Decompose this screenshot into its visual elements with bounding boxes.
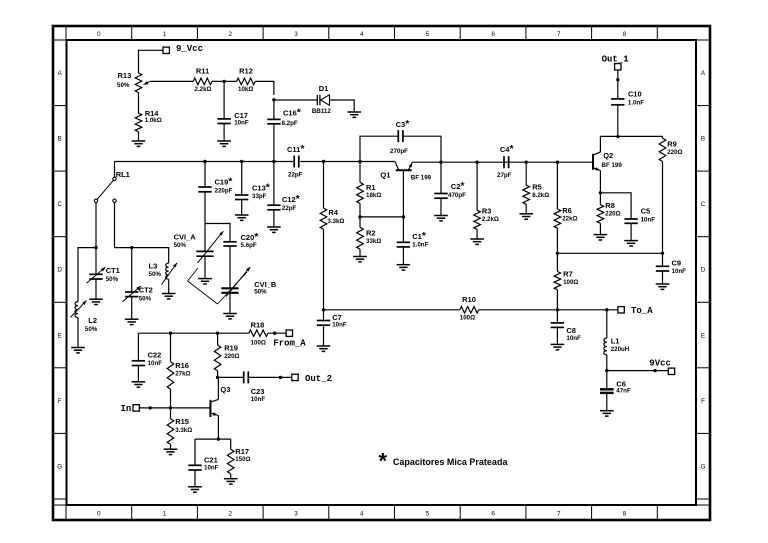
wire RL1 to CT2 L3 [115,248,169,264]
resistor R6 [554,206,577,228]
terminal 9_Vcc [163,44,203,54]
wire node to 9Vcc [607,370,669,372]
svg-text:100Ω: 100Ω [563,279,578,286]
svg-text:C22: C22 [148,350,162,359]
resistor R10 [460,295,479,321]
ground R14 [132,140,146,142]
svg-text:C23: C23 [251,387,265,396]
svg-text:A: A [58,70,63,77]
node bus C3-R1 [358,160,361,163]
wire node to R7 [556,253,558,271]
wire R6 down [556,228,558,253]
svg-text:R13: R13 [118,71,132,80]
capacitor C23 [244,371,266,402]
svg-text:Q2: Q2 [603,151,613,160]
node 9Vcc stem [654,369,657,372]
wire node to C7 [323,310,325,321]
wire R4 down to C7 node [323,229,325,310]
wire emitter to R8 [599,193,601,205]
wire L1 down [606,355,608,371]
wire D1 to ground [330,100,355,112]
capacitor C5 [624,207,655,224]
svg-text:C8: C8 [566,326,576,335]
svg-text:10nF: 10nF [234,119,249,126]
wire node to R5 [525,162,527,185]
svg-text:6: 6 [491,510,495,517]
svg-text:1: 1 [163,31,167,38]
svg-text:9Vcc: 9Vcc [649,358,671,368]
node Out_2 stem [279,376,282,379]
svg-text:R10: R10 [462,295,476,304]
wire Q1 base down [402,170,404,217]
resistor R7 [554,269,578,289]
capacitor C20 [223,231,259,249]
svg-text:1: 1 [163,510,167,517]
potentiometer R13 [117,71,150,93]
svg-text:5: 5 [426,510,430,517]
ground C22 [132,381,146,383]
node R19 [216,332,219,335]
wire R1 to node [359,203,361,217]
svg-text:2.2kΩ: 2.2kΩ [482,216,499,223]
ground CT2 [125,318,139,320]
resistor R3 [474,206,499,229]
wire 9_Vcc to R13 [139,50,164,73]
wire bus to C19 [204,162,206,188]
ground C2 [434,215,448,217]
svg-text:10nF: 10nF [332,322,347,329]
svg-text:R12: R12 [239,67,253,76]
wire C13 to ground [241,200,243,216]
wire L3 to ground [168,279,170,293]
ground C1 [397,264,411,266]
svg-text:27kΩ: 27kΩ [175,370,190,377]
svg-text:R9: R9 [667,139,677,148]
svg-text:C: C [701,201,706,208]
wire node to CT2 [131,248,133,292]
wire C8 to ground [556,327,558,344]
node base-C1 [402,215,405,218]
wire R8 to ground [599,223,601,234]
wire R12 to C16 node [255,81,274,95]
svg-text:22pF: 22pF [282,205,297,212]
node bus C13 [240,160,243,163]
wire C6 to ground [606,393,608,411]
wire C7 to ground [323,325,325,346]
ground L2 [71,347,85,349]
svg-text:50%: 50% [149,271,162,278]
svg-text:Q3: Q3 [220,385,230,394]
node R4-C7 [322,308,325,311]
svg-text:C7: C7 [332,313,342,322]
capacitor C17 [217,111,248,127]
svg-text:10nF: 10nF [204,464,219,471]
svg-text:50%: 50% [254,289,267,296]
svg-text:47nF: 47nF [616,387,631,394]
ground R5 [519,213,533,215]
svg-text:G: G [57,463,62,470]
svg-text:R7: R7 [563,269,573,278]
wire R13 to R14 [138,93,140,114]
wire C5 to ground [630,223,632,240]
svg-text:3: 3 [294,31,298,38]
svg-text:3.3kΩ: 3.3kΩ [175,427,192,434]
svg-text:100Ω: 100Ω [251,340,266,347]
ground CVI_A [198,278,212,280]
ground R8 [594,234,608,236]
wire C2 to ground [440,198,442,215]
wire to R9 [662,136,664,138]
wire Q3 emitter down [217,415,219,439]
svg-text:2: 2 [228,510,232,517]
gang linkage CVI [188,268,247,304]
wire node to D1 [274,99,317,101]
node CT2 [130,246,133,249]
svg-text:470pF: 470pF [448,192,466,199]
ground R2 [353,256,367,258]
svg-text:R6: R6 [562,206,572,215]
svg-text:220Ω: 220Ω [667,149,682,156]
svg-text:B: B [701,136,705,143]
wire C21 to ground [194,470,196,487]
svg-text:10nF: 10nF [566,335,581,342]
svg-text:C1*: C1* [412,230,427,242]
trimmer capacitor CT2 [123,285,153,302]
wire R11 to R12 [212,80,237,82]
node R16-R15 [169,406,172,409]
variable capacitor CVI_A [174,231,224,263]
svg-text:CVI_A: CVI_A [174,233,197,242]
svg-text:150Ω: 150Ω [235,456,250,463]
svg-text:50%: 50% [174,242,187,249]
resistor R15 [167,417,192,445]
svg-text:220Ω: 220Ω [605,210,620,217]
svg-text:RL1: RL1 [116,170,130,179]
wire From_A bus [138,332,286,334]
node bus R4 [322,160,325,163]
node R7-C8 [556,308,559,311]
variable inductor L3 [149,261,178,284]
wire R2 to ground [359,249,361,256]
svg-text:50%: 50% [106,276,119,283]
svg-text:R4: R4 [328,208,338,217]
svg-text:10nF: 10nF [251,396,266,403]
node R9-C9 [661,252,664,255]
node In stem [149,406,152,409]
svg-text:C13*: C13* [252,182,271,194]
wire C17 to ground [223,124,225,142]
svg-text:3: 3 [294,510,298,517]
wire node to R6 [556,162,558,209]
svg-text:4: 4 [360,31,364,38]
node C10 [616,135,619,138]
capacitor C19 [198,176,233,195]
svg-text:0: 0 [97,31,101,38]
wire Q2 emitter down [599,170,601,193]
svg-text:22pF: 22pF [288,172,303,179]
resistor R16 [167,361,190,389]
frame row letters [57,70,706,470]
node Out_1 stem [616,78,619,81]
wire R3 to ground [476,229,478,239]
svg-text:R1: R1 [366,183,376,192]
node R6-R7 [556,252,559,255]
wire node to C2 [440,162,442,193]
svg-text:8: 8 [623,510,627,517]
svg-text:C4*: C4* [500,143,515,155]
svg-text:C11*: C11* [287,143,305,155]
svg-text:C: C [57,201,62,208]
node R6 [556,161,559,164]
svg-text:L3: L3 [149,261,158,270]
capacitor C21 [188,455,218,471]
wire R19 down [217,371,219,378]
wire C10 up [617,105,619,137]
resistor R18 [249,320,268,346]
wire node to R16 [170,333,172,361]
wire node to C9 [662,253,664,266]
svg-text:Capacitores Mica Prateada: Capacitores Mica Prateada [393,457,509,467]
wire bus to C12 [273,162,275,206]
wire CVI_B to ground [229,293,231,314]
svg-text:C16*: C16* [283,107,302,119]
svg-text:33kΩ: 33kΩ [366,238,381,245]
svg-text:B: B [58,136,62,143]
ground D1 [347,111,361,113]
capacitor C6 [600,379,631,394]
svg-text:2.2kΩ: 2.2kΩ [195,86,212,93]
wire R6-R9 node [557,252,662,254]
variable capacitor CVI_B [221,267,276,297]
svg-text:E: E [701,332,705,339]
wire collector to C23 [218,376,244,378]
wire emitter to C5 [600,193,631,219]
ground C12 [267,226,281,228]
svg-text:R5: R5 [532,182,542,191]
capacitor C16 [267,107,302,127]
svg-text:*: * [379,449,388,474]
capacitor C3 top wire [360,136,441,162]
svg-text:CT2: CT2 [139,285,153,294]
svg-text:To_A: To_A [631,306,653,316]
svg-text:F: F [701,398,705,405]
node R11-R12-C17 [222,80,225,83]
wire C19 to CVI_A and C20 [205,192,230,242]
ground L3 [162,293,176,295]
svg-text:3.3kΩ: 3.3kΩ [327,218,344,225]
wire node to C16 [273,100,275,120]
svg-text:Out_1: Out_1 [602,54,630,64]
wire C22 to ground [137,366,139,382]
svg-text:BF 199: BF 199 [602,162,623,169]
node L1-C6-9Vcc [605,369,608,372]
terminal 9Vcc [649,358,674,374]
node bus C16-C12 [272,160,275,163]
resistor R9 [659,138,682,161]
transistor Q3 [210,385,230,417]
wire node to C1 [402,217,404,242]
inductor L1 [604,336,630,355]
svg-text:R16: R16 [175,361,189,370]
wire CVI_A to ground [204,256,206,278]
svg-text:5.6pF: 5.6pF [241,242,257,249]
svg-text:18kΩ: 18kΩ [366,192,381,199]
svg-text:33pF: 33pF [252,193,267,200]
svg-text:50%: 50% [85,326,98,333]
resistor R11 [193,67,212,93]
ground R15 [164,448,178,450]
wire C20 to CVI_B [229,246,231,288]
wire Q2 collector up [599,136,601,152]
node R16 [169,332,172,335]
svg-text:C9: C9 [672,258,682,267]
terminal Out_1 [602,54,630,70]
svg-text:BF 199: BF 199 [411,174,432,181]
svg-text:C2*: C2* [451,180,466,192]
wire node to C17 [223,81,225,119]
svg-text:50%: 50% [139,295,152,302]
ground R17 [224,478,238,480]
svg-text:10nF: 10nF [672,268,687,275]
wire node to CT1 [95,248,97,275]
svg-text:C5: C5 [641,207,651,216]
svg-text:8.2pF: 8.2pF [282,120,298,127]
wire R15 to ground [170,444,172,449]
svg-text:8: 8 [623,31,627,38]
svg-text:4: 4 [360,510,364,517]
svg-text:CT1: CT1 [106,266,120,275]
capacitor C2 [434,180,466,199]
transistor Q2 BF199 [593,151,622,171]
svg-text:C10: C10 [628,89,642,98]
svg-text:5: 5 [426,31,430,38]
svg-text:220uH: 220uH [611,346,630,353]
wire R5 to ground [525,204,527,214]
wire bus to C13 [241,162,243,196]
node To_A-L1 [605,308,608,311]
wire node to R19 [217,333,219,345]
wire main bus left segment [115,161,293,163]
variable inductor L2 [70,301,97,334]
svg-text:27pF: 27pF [497,172,512,179]
svg-text:L1: L1 [611,336,620,345]
wire base node [360,216,403,218]
resistor R17 [227,447,250,474]
svg-text:270pF: 270pF [390,148,408,155]
wire node to L1 [606,310,608,338]
ground R3 [470,238,484,240]
wire Q3 collector up [217,377,219,399]
terminal Out_2 [292,374,332,384]
wire R10 left segment [324,309,460,311]
svg-text:2: 2 [228,31,232,38]
svg-text:E: E [58,332,62,339]
node Q3 collector [216,376,219,379]
resistor R1 [357,182,382,203]
resistor R12 [237,67,256,93]
wire node to L2 [78,248,96,302]
svg-text:R19: R19 [224,343,238,352]
svg-text:R2: R2 [366,228,376,237]
ground CT1 [89,298,103,300]
capacitor C12 [267,193,300,212]
svg-text:7: 7 [557,31,561,38]
wire R7 down [556,290,558,310]
svg-text:R8: R8 [605,201,615,210]
svg-text:BB112: BB112 [312,108,331,115]
wire wiper to R11 [150,80,193,82]
capacitor C11 [287,143,305,179]
svg-text:R3: R3 [482,206,492,215]
svg-text:C19*: C19* [215,176,234,188]
ground C9 [656,283,670,285]
svg-text:50%: 50% [117,82,130,89]
node CT1-L2 [94,246,97,249]
terminal From_A [273,330,306,349]
svg-text:L2: L2 [88,316,97,325]
ground C21 [188,486,202,488]
wire R16 down [170,389,172,407]
wire emitter bus [412,161,593,163]
resistor R2 [357,217,382,249]
svg-text:10nF: 10nF [641,217,656,224]
capacitor C10 [611,89,644,106]
node Q2 emitter [599,191,602,194]
svg-text:6: 6 [491,31,495,38]
capacitor C4 [497,143,514,179]
svg-text:10nF: 10nF [148,360,163,367]
terminal To_A [618,306,653,316]
wire node to C6 [606,371,608,390]
resistor R5 [523,182,549,204]
svg-text:D: D [57,267,62,274]
wire emitter node [195,439,231,465]
svg-text:0: 0 [97,510,101,517]
node D1 branch [272,98,275,101]
node C3-C2 [439,161,442,164]
wire R9 down [662,161,664,253]
svg-text:C21: C21 [204,455,218,464]
wire C1 to ground [402,247,404,265]
transistor Q1 BF199 [380,162,431,182]
node R3 [475,161,478,164]
wire CT1 to ground [95,279,97,299]
svg-text:In: In [121,404,132,414]
wire node to R15 [170,408,172,419]
wire C22 corner [137,333,139,361]
wire bus C11 to Q1 [300,161,395,163]
svg-text:R17: R17 [235,447,249,456]
svg-text:1.0nF: 1.0nF [628,99,644,106]
svg-text:D1: D1 [319,84,329,93]
wire RL1 right contact down [114,203,116,248]
wire node to R3 [476,162,478,210]
wire bus to R4 [323,162,325,209]
capacitor C7 [317,313,347,329]
wire C12 to ground [273,210,275,227]
svg-text:F: F [58,398,62,405]
svg-text:10kΩ: 10kΩ [238,86,253,93]
capacitor C13 [235,182,271,201]
trimmer capacitor CT1 [87,266,120,283]
wire collector node [600,135,662,137]
svg-text:220Ω: 220Ω [224,353,239,360]
svg-text:220pF: 220pF [215,188,233,195]
ground C8 [551,343,565,345]
frame column numbers [97,31,627,518]
svg-text:1.0nF: 1.0nF [412,242,428,249]
wire bus to RL1 [114,162,116,178]
